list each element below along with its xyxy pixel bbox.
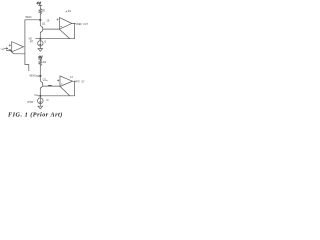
node E row wire xyxy=(36,38,75,40)
svg-text:VC: VC xyxy=(34,94,38,97)
current source I1 xyxy=(38,40,43,49)
output wire U3 xyxy=(72,80,75,82)
minus sign U3 xyxy=(61,83,62,85)
op-amp U3 xyxy=(60,76,72,87)
svg-text:Q1: Q1 xyxy=(42,22,46,26)
svg-text:OUT: OUT xyxy=(83,22,88,26)
svg-text:+V: +V xyxy=(37,2,42,6)
bias wire to bottom stage xyxy=(25,54,29,71)
minus sign U1 xyxy=(9,49,11,51)
wire node B left stub xyxy=(36,75,40,77)
svg-text:FIG. 1 (Prior Art): FIG. 1 (Prior Art) xyxy=(8,112,63,119)
plus sign U3 xyxy=(57,80,59,82)
svg-text:R1: R1 xyxy=(42,9,46,13)
node A junction xyxy=(39,19,41,21)
label 18 on base wire xyxy=(49,85,52,87)
power +V top xyxy=(37,2,42,9)
resistor R2 xyxy=(39,60,42,65)
node B junction xyxy=(39,75,41,77)
feedback diagonal U2 to node E xyxy=(59,29,69,39)
svg-text:VBIAS: VBIAS xyxy=(25,15,31,19)
wire resistor to node A xyxy=(39,14,41,20)
node E junction xyxy=(39,38,41,40)
svg-text:VIN: VIN xyxy=(1,49,5,51)
op-amp U1 xyxy=(12,42,24,52)
transistor Q1 xyxy=(40,20,42,39)
svg-text:VPTAT: VPTAT xyxy=(75,80,80,84)
feedback wire U1 xyxy=(6,47,25,54)
svg-text:R2: R2 xyxy=(43,60,47,64)
node C row wire xyxy=(37,95,74,97)
wire resistor R2 to node B xyxy=(39,66,41,77)
wire Q2 base to op-amp U3 xyxy=(43,85,60,87)
ground bottom xyxy=(38,106,43,109)
svg-text:10: 10 xyxy=(68,9,72,13)
svg-text:IPTAT: IPTAT xyxy=(27,101,34,104)
reference numeral 10 xyxy=(66,9,71,13)
ground top xyxy=(38,49,43,52)
op-amp U2 xyxy=(59,18,71,30)
svg-text:Q2: Q2 xyxy=(43,77,47,81)
current source I2 xyxy=(38,97,44,107)
power +V bottom xyxy=(38,55,43,60)
resistor R1 xyxy=(39,9,42,14)
transistor Q2 xyxy=(40,76,42,96)
node C junction xyxy=(39,95,41,97)
wire node A left xyxy=(25,19,40,21)
output wire U2 xyxy=(72,22,76,24)
plus sign U2 xyxy=(57,19,59,21)
wire Q1 base to op-amp U2 xyxy=(43,28,60,30)
svg-text:VBIAS: VBIAS xyxy=(29,73,36,77)
feedback diagonal U3 to node C xyxy=(60,86,70,95)
svg-text:OUT: OUT xyxy=(81,80,84,84)
feedback wire U2 down xyxy=(74,23,76,38)
input arrow xyxy=(4,48,8,50)
tiny numeral tick xyxy=(46,79,47,82)
wire down to op-amp U1 output xyxy=(24,20,26,47)
feedback wire U3 down xyxy=(74,81,76,96)
minus sign U2 xyxy=(60,25,61,27)
plus sign U1 xyxy=(9,45,11,47)
svg-text:IPT: IPT xyxy=(30,41,34,44)
svg-text:VREF: VREF xyxy=(76,22,82,26)
